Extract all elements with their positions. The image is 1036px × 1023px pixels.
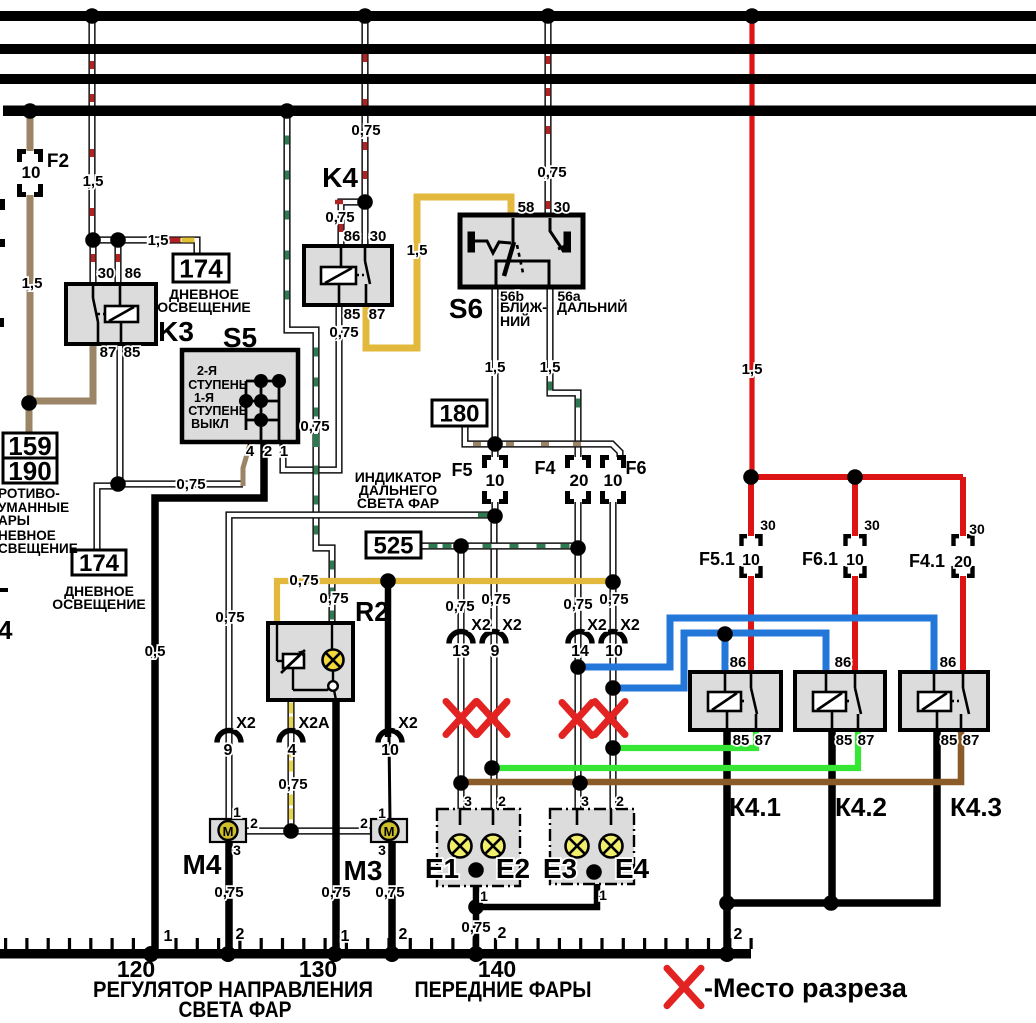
node node 13 [453,538,469,554]
wire header to F6 [493,444,620,457]
relay K3 internals [93,286,121,342]
svg-text:0,75: 0,75 [537,164,566,181]
node ruler e [468,946,484,962]
wire box525 wire [421,542,579,549]
wire brown K4.3-87 to wire13 [461,728,961,782]
wire node to box 174a [93,240,197,256]
svg-text:F2: F2 [47,151,69,172]
svg-text:10: 10 [381,742,399,759]
svg-text:1,5: 1,5 [540,359,561,376]
svg-text:X2A: X2A [298,715,330,732]
coil of relay K4 [321,267,356,284]
yellow dash marks on X2A wire [289,703,293,714]
switch S5 [182,350,298,442]
node node F5 out [487,508,503,524]
svg-text:4: 4 [288,742,297,759]
connector X2 pin 9 mid [482,632,506,644]
relay K4.2 internals [826,674,861,728]
svg-text:85: 85 [344,306,361,323]
coil of K4.1 [708,692,741,711]
svg-text:1,5: 1,5 [148,232,169,249]
wire black E-ground down [473,868,480,952]
svg-text:0,75: 0,75 [325,209,354,226]
svg-text:87: 87 [858,732,875,749]
svg-text:2: 2 [264,443,272,460]
bottom ruler line [0,949,751,959]
connector X2 pin 9 [217,731,241,743]
relay K4.3 internals [934,674,969,728]
fuse F6.1 [846,536,865,576]
svg-text:F6.1: F6.1 [802,549,838,569]
svg-text:2: 2 [399,926,408,943]
svg-text:13: 13 [452,643,470,660]
svg-text:20: 20 [954,554,972,571]
svg-text:X2: X2 [398,715,418,732]
svg-text:2: 2 [616,793,624,809]
wire indicator wire to M4-1 [229,515,492,821]
wire E3-E4 join [577,855,611,872]
svg-text:4: 4 [0,615,13,645]
svg-text:ПЕРЕДНИЕ ФАРЫ: ПЕРЕДНИЕ ФАРЫ [415,977,592,1002]
box 190 [3,458,57,483]
svg-text:2: 2 [498,925,507,942]
fuse F5.1 [742,536,761,576]
node node 14 [570,540,586,556]
wire M4-2 to M3-2 [244,827,373,834]
node green node 10 [605,740,621,756]
red dash marks on wire x92 [90,61,94,69]
coil of K4.3 [918,692,951,711]
wire red F5.1 to K4.1 [748,576,754,674]
wire branch to K4-86 [341,202,365,248]
svg-text:S6: S6 [449,293,483,324]
relay K4.1 internals [725,674,757,728]
wire black node581 to X2-10 [385,578,392,737]
motor symbol M4 [219,821,238,840]
svg-text:3: 3 [233,842,241,858]
green dash marks on 56a corner [548,382,552,391]
node brown node 13 [453,775,469,791]
svg-text:0,75: 0,75 [445,598,474,615]
svg-text:2: 2 [250,815,258,831]
svg-text:СВЕЩЕНИЕ: СВЕЩЕНИЕ [0,541,78,556]
node brown node 14 [572,775,588,791]
connector X2 pin 14 [568,632,592,644]
R2 output circle [328,681,338,691]
node bus1-a [84,8,100,24]
wire black R2 ground [332,698,340,952]
lamp stems [460,809,611,825]
svg-text:2: 2 [734,926,743,943]
wire blue branch to K4.1-86 [722,633,729,674]
svg-text:87: 87 [369,306,386,323]
svg-text:0,75: 0,75 [563,596,592,613]
relay K4 internals [339,248,370,303]
fuse F4 [568,458,589,502]
node blue branch node [717,626,733,642]
wire red main feed from bus1 [749,12,754,481]
node bus4-a [22,103,38,119]
svg-text:E2: E2 [496,853,530,884]
node bus1-b [357,8,373,24]
node node M4-M3 [283,823,299,839]
fuse F2 [20,152,41,195]
box 525 [366,532,421,558]
node green node 9 [484,760,500,776]
wire wire 14 down to E3 [574,546,581,811]
motor M3 [371,819,407,842]
brown dash marks on header [473,442,481,446]
svg-text:174: 174 [79,550,120,577]
node red node a [743,469,759,485]
svg-text:0,75: 0,75 [351,122,380,139]
svg-text:3: 3 [581,793,589,809]
svg-text:СТУПЕНЬ: СТУПЕНЬ [188,404,247,418]
node relay ground node a [719,895,735,911]
green arrow marks [478,513,488,517]
wire node484 to box 174b [97,486,118,552]
wire yellow K4-87 to S6-58 1.5 [366,197,511,348]
relay K4.1 [690,672,781,730]
ruler ticks [4,938,753,949]
box 159 [3,433,57,458]
svg-text:1,5: 1,5 [485,359,506,376]
svg-text:K4: K4 [322,162,358,193]
wire node to K3-86 [114,238,121,286]
svg-text:3: 3 [464,793,472,809]
wire K3-85 down [116,344,123,486]
svg-text:0,75: 0,75 [176,476,205,493]
node E ground node [468,899,484,915]
node K3-30 node [85,232,101,248]
svg-text:F4: F4 [534,458,555,478]
node yellow node a [380,573,396,589]
svg-text:К4.2: К4.2 [835,792,887,822]
relay K3 [66,284,156,344]
node K3-86 node [110,232,126,248]
relay K4.2 [795,672,885,730]
node red node b [847,469,863,485]
wire E1-E2 join [460,855,493,870]
svg-text:0,75: 0,75 [319,590,348,607]
wire red to F5.1 [748,477,754,536]
wire black X2-10 to M3-1 [389,737,390,821]
svg-text:0,5: 0,5 [145,643,166,660]
svg-text:30: 30 [98,265,115,282]
connector X2 pin 10 mid [601,632,625,644]
node brown node [21,395,37,411]
svg-text:ОСВЕЩЕНИЕ: ОСВЕЩЕНИЕ [52,596,146,612]
wire black M4-3 ground [225,840,233,952]
wire black K4.1-85 ground [723,730,731,952]
coil of relay K3 [105,306,138,322]
svg-text:M3: M3 [344,855,383,886]
svg-text:X2: X2 [502,617,522,634]
wire blue wire 14 to K4.3-86 [578,618,934,674]
svg-text:0,75: 0,75 [278,776,307,793]
headlamp unit E3/E4 box [550,809,634,884]
svg-text:85: 85 [941,732,958,749]
box 174 daytime running [173,254,229,282]
svg-text:190: 190 [8,456,51,486]
svg-text:2-Я: 2-Я [197,364,217,378]
svg-text:87: 87 [963,732,980,749]
bus line 4 [3,106,1036,117]
svg-text:1: 1 [341,928,350,945]
svg-text:10: 10 [22,163,41,182]
svg-text:180: 180 [439,401,479,428]
box 180 [432,400,487,426]
svg-text:2: 2 [236,926,245,943]
svg-text:M: M [384,824,395,839]
svg-text:E1: E1 [425,853,459,884]
red+yellow segment on wire to 174a [168,238,181,243]
svg-text:F5: F5 [451,460,472,480]
svg-text:1,5: 1,5 [83,173,104,190]
svg-text:86: 86 [835,654,852,671]
wire wire 9 down to E2 [490,513,497,811]
bus line 3 [0,74,1036,84]
svg-text:F4.1: F4.1 [909,551,945,571]
wire brown feed bus4 to F2 [27,105,34,151]
svg-text:2: 2 [360,815,368,831]
svg-text:1: 1 [378,805,386,821]
svg-text:9: 9 [491,643,500,660]
svg-text:К4.1: К4.1 [729,792,781,822]
node ruler c [327,946,343,962]
svg-text:0,75: 0,75 [461,919,490,936]
svg-text:X2: X2 [236,715,256,732]
coil of rheostat of R2 [283,654,304,668]
svg-text:87: 87 [100,344,117,361]
cut mark on wire 13 [446,702,476,735]
svg-text:0,75: 0,75 [289,572,318,589]
node bus4-b [279,103,295,119]
wire node484 to S5-4, 0.75 [116,480,243,487]
node bus1-c [540,8,556,24]
wire red F6.1 to K4.2 [852,576,858,674]
box 174 daytime running 2 [72,550,126,575]
wire black K4.2-85 ground [828,730,836,905]
svg-text:30: 30 [760,517,776,533]
svg-text:M: M [223,824,234,839]
switch S6 internals [469,218,570,285]
svg-text:10: 10 [846,552,864,569]
bus line 1 [0,11,1036,21]
svg-text:0,75: 0,75 [329,324,358,341]
svg-text:E4: E4 [615,853,650,884]
headlamp unit E1/E2 box [437,809,520,886]
regulator R2 [268,623,353,700]
svg-text:2: 2 [498,793,506,809]
wire bus1 to S6-30, 0.75 [544,12,551,218]
wire F5 to node 9 [491,502,498,518]
cut mark on wire 9 [477,702,507,735]
left edge page marks [0,199,5,210]
wire brown K3-87 to node [26,344,93,401]
svg-text:10: 10 [486,471,505,490]
svg-text:1,5: 1,5 [742,361,763,378]
svg-text:30: 30 [554,199,571,216]
lamp E1 [449,835,472,858]
svg-text:30: 30 [370,228,387,245]
svg-text:X2: X2 [471,617,491,634]
wire black M3-3 ground [388,840,396,952]
svg-text:СВЕТА ФАР: СВЕТА ФАР [179,997,292,1022]
svg-text:86: 86 [940,654,957,671]
rheostat arrow [281,650,305,673]
wire node to K3-30 [89,238,96,286]
svg-text:СВЕТА ФАР: СВЕТА ФАР [357,495,439,511]
connector X2A pin 4 [279,731,303,743]
wire wire 13 down to E1 [457,544,464,811]
svg-text:86: 86 [730,654,747,671]
svg-text:30: 30 [864,517,880,533]
svg-text:10: 10 [742,552,760,569]
wire bus4 to R2 green-dashed [287,105,332,625]
wire wire 10 down to E4 [609,502,616,811]
wire red F4.1 to K4.3 [960,576,966,674]
node relay ground node b [823,895,839,911]
svg-text:87: 87 [755,732,772,749]
svg-text:0,75: 0,75 [599,591,628,608]
svg-text:174: 174 [179,253,223,283]
svg-text:F6: F6 [625,458,646,478]
node ruler b [220,946,236,962]
svg-text:ВЫКЛ: ВЫКЛ [191,417,229,431]
svg-text:1: 1 [233,804,241,820]
cut mark on wire 10 [595,702,625,735]
svg-text:1: 1 [164,928,173,945]
svg-text:S5: S5 [223,322,257,353]
relay K4.3 [900,672,988,730]
svg-text:АРЫ: АРЫ [0,513,30,528]
red dash marks on wire x365 [363,54,367,62]
lamp E2 [482,835,505,858]
svg-text:85: 85 [124,344,141,361]
svg-text:58: 58 [518,199,535,216]
wire S5-1 to K4-85 [283,303,339,470]
svg-text:1-Я: 1-Я [194,391,214,405]
wire yellow horizontal to R2 [277,581,615,625]
node node E3E4 [586,864,602,880]
S5 terminal stubs [248,440,253,445]
switch S6 [460,215,583,287]
svg-text:0,75: 0,75 [481,591,510,608]
svg-text:0,75: 0,75 [375,884,404,901]
svg-text:1: 1 [480,888,488,904]
svg-text:ДАЛЬНИЙ: ДАЛЬНИЙ [557,298,627,315]
lamp indicator lamp in R2 [323,650,344,671]
svg-text:0,75: 0,75 [214,884,243,901]
svg-text:0,75: 0,75 [215,609,244,626]
wire brown F2 down to node [27,195,34,406]
fuse F5 [485,458,506,502]
svg-text:К4.3: К4.3 [950,792,1002,822]
wire red to F4.1 [960,477,966,536]
wire S6-56a to F4 [550,285,578,457]
svg-text:20: 20 [570,471,589,490]
svg-text:K3: K3 [158,316,194,347]
red dash marks near K3/K4 [91,254,95,262]
svg-text:1,5: 1,5 [22,275,43,292]
coil of K4.2 [813,692,846,711]
svg-text:1,5: 1,5 [407,242,428,259]
wire blue wire 10 to K4.2-86 [613,633,826,688]
wire bus1 to K3 node, 1.5 [88,12,95,242]
wire red header [751,474,963,480]
svg-text:86: 86 [125,265,142,282]
node header node [487,436,503,452]
svg-text:РОТИВО-: РОТИВО- [0,486,60,501]
cut mark legend [667,968,701,1005]
node ruler d [384,946,400,962]
lamp E4 [600,835,623,858]
svg-text:0,75: 0,75 [321,884,350,901]
svg-text:9: 9 [224,742,233,759]
node yellow node b [605,574,621,590]
svg-text:30: 30 [969,521,985,537]
wire brown node to box 159 [26,401,33,434]
svg-text:X2: X2 [620,617,640,634]
node blue node 10 [605,680,621,696]
motor M4 [210,819,246,842]
wire bus1 to K4-30, 0.75 [361,12,368,248]
svg-text:1: 1 [280,443,288,460]
wire black E3E4 to node [476,870,597,907]
wire black K4.3-85 link [725,730,937,903]
node blue node 14 [570,659,586,675]
svg-text:НИЙ: НИЙ [500,312,530,329]
svg-text:10: 10 [605,643,623,660]
wire box180 link [465,424,497,444]
wire F4 down to node 14 [574,502,581,551]
regulator R2 internals [277,625,336,700]
svg-text:R2: R2 [355,596,389,627]
wire red to F6.1 [852,477,858,536]
connector X2 pin 10 left [378,731,402,743]
node node E1E2 [468,862,484,878]
bus line 2 [0,44,1036,54]
wire R2 to node831 X2A-4 [287,700,294,833]
svg-text:85: 85 [733,732,750,749]
svg-text:10: 10 [604,471,623,490]
relay K4 [304,246,392,305]
green dash marks on long wire [285,136,289,145]
motor symbol M3 [380,821,399,840]
wire black S5-2 ground 0.5 [155,440,264,952]
wire green K4.2-87 to wire9 [492,728,858,768]
wire brown stub S5-4 [243,444,250,486]
svg-text:F5.1: F5.1 [699,549,735,569]
red dash marks on wire x548 [546,56,550,64]
node K4 node [357,194,373,210]
svg-text:СТУПЕНЬ: СТУПЕНЬ [188,378,247,392]
svg-text:M4: M4 [183,849,222,880]
switch S5 internals (step ladder) [246,381,279,440]
svg-text:14: 14 [571,643,589,660]
node node 484 [110,476,126,492]
svg-text:E3: E3 [543,853,577,884]
wire S6-56b to F5 [491,285,498,457]
wire green K4.1-87 to wire10 [613,728,756,748]
node bus1-d [744,8,760,24]
svg-text:-Место разреза: -Место разреза [704,973,908,1003]
connector X2 pin 13 [449,632,473,644]
node ruler f [719,946,735,962]
svg-text:86: 86 [344,228,361,245]
fuse F6 [603,458,624,502]
